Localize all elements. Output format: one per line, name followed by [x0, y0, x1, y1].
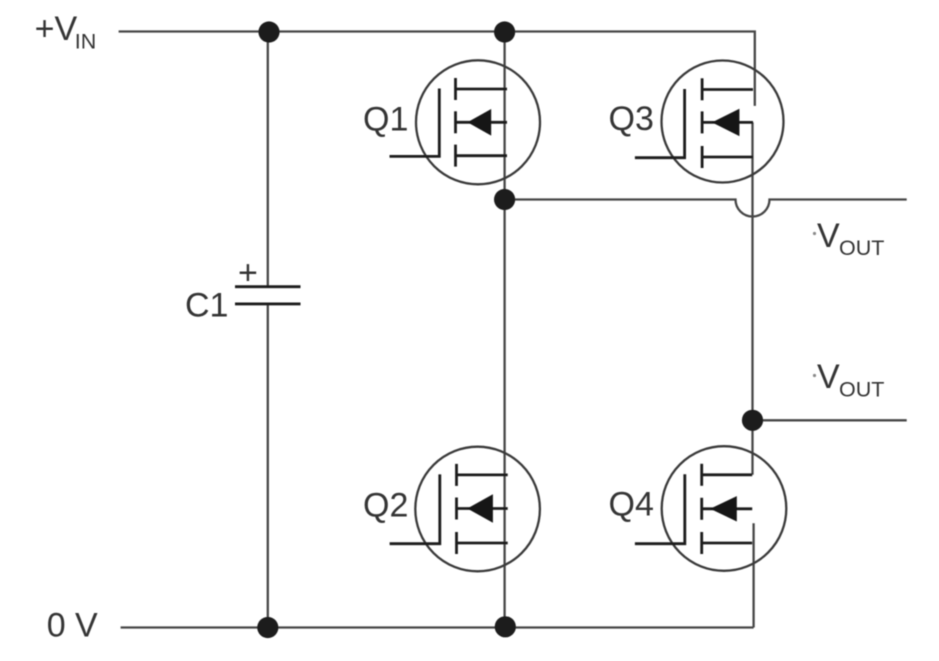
svg-text:V: V: [817, 217, 840, 255]
wire C1 bottom lead: [267, 304, 269, 628]
wire Q3 source/body vertical down to Q4 drain: [751, 122, 753, 474]
svg-text:Q2: Q2: [363, 487, 408, 525]
svg-text:Q4: Q4: [609, 486, 654, 524]
junction Q1/Q2 midpoint: [494, 189, 515, 210]
wire lower VOUT line: [753, 419, 907, 421]
wire top +VIN rail with Q3 drain lead: [119, 32, 755, 106]
junction bottom rail / C1: [257, 617, 278, 638]
wire Q4 source vertical to bottom rail: [752, 523, 754, 627]
svg-text:Q1: Q1: [363, 101, 408, 139]
junction top rail / C1: [258, 21, 279, 42]
transistor Q4: [609, 446, 787, 571]
svg-text:0 V: 0 V: [47, 607, 98, 645]
node VOUT upper label: [813, 217, 884, 260]
wire C1 top lead: [267, 32, 269, 287]
svg-text:Q3: Q3: [609, 100, 654, 138]
svg-text:OUT: OUT: [839, 377, 884, 401]
svg-text:OUT: OUT: [839, 236, 884, 260]
transistor Q2: [363, 447, 540, 572]
junction top rail / Q1 drain: [494, 21, 515, 42]
svg-text:C1: C1: [185, 287, 228, 325]
wire bottom 0V rail: [121, 626, 754, 628]
transistor Q1: [363, 60, 540, 184]
svg-text:IN: IN: [75, 29, 97, 53]
svg-text:+V: +V: [35, 10, 78, 48]
junction bottom rail / Q2 source: [495, 616, 516, 637]
wire left half-bridge vertical (Q1 drain to Q2 source): [503, 32, 505, 628]
wire upper VOUT line with hop over Q3/Q4 column: [505, 200, 907, 217]
capacitor C1: [185, 254, 301, 325]
junction Q3/Q4 midpoint / lower VOUT: [742, 410, 763, 431]
svg-text:V: V: [817, 358, 840, 396]
svg-text:+: +: [238, 254, 258, 292]
transistor Q3: [609, 61, 784, 183]
node VOUT lower label: [813, 358, 884, 401]
node +VIN label: [35, 10, 97, 53]
